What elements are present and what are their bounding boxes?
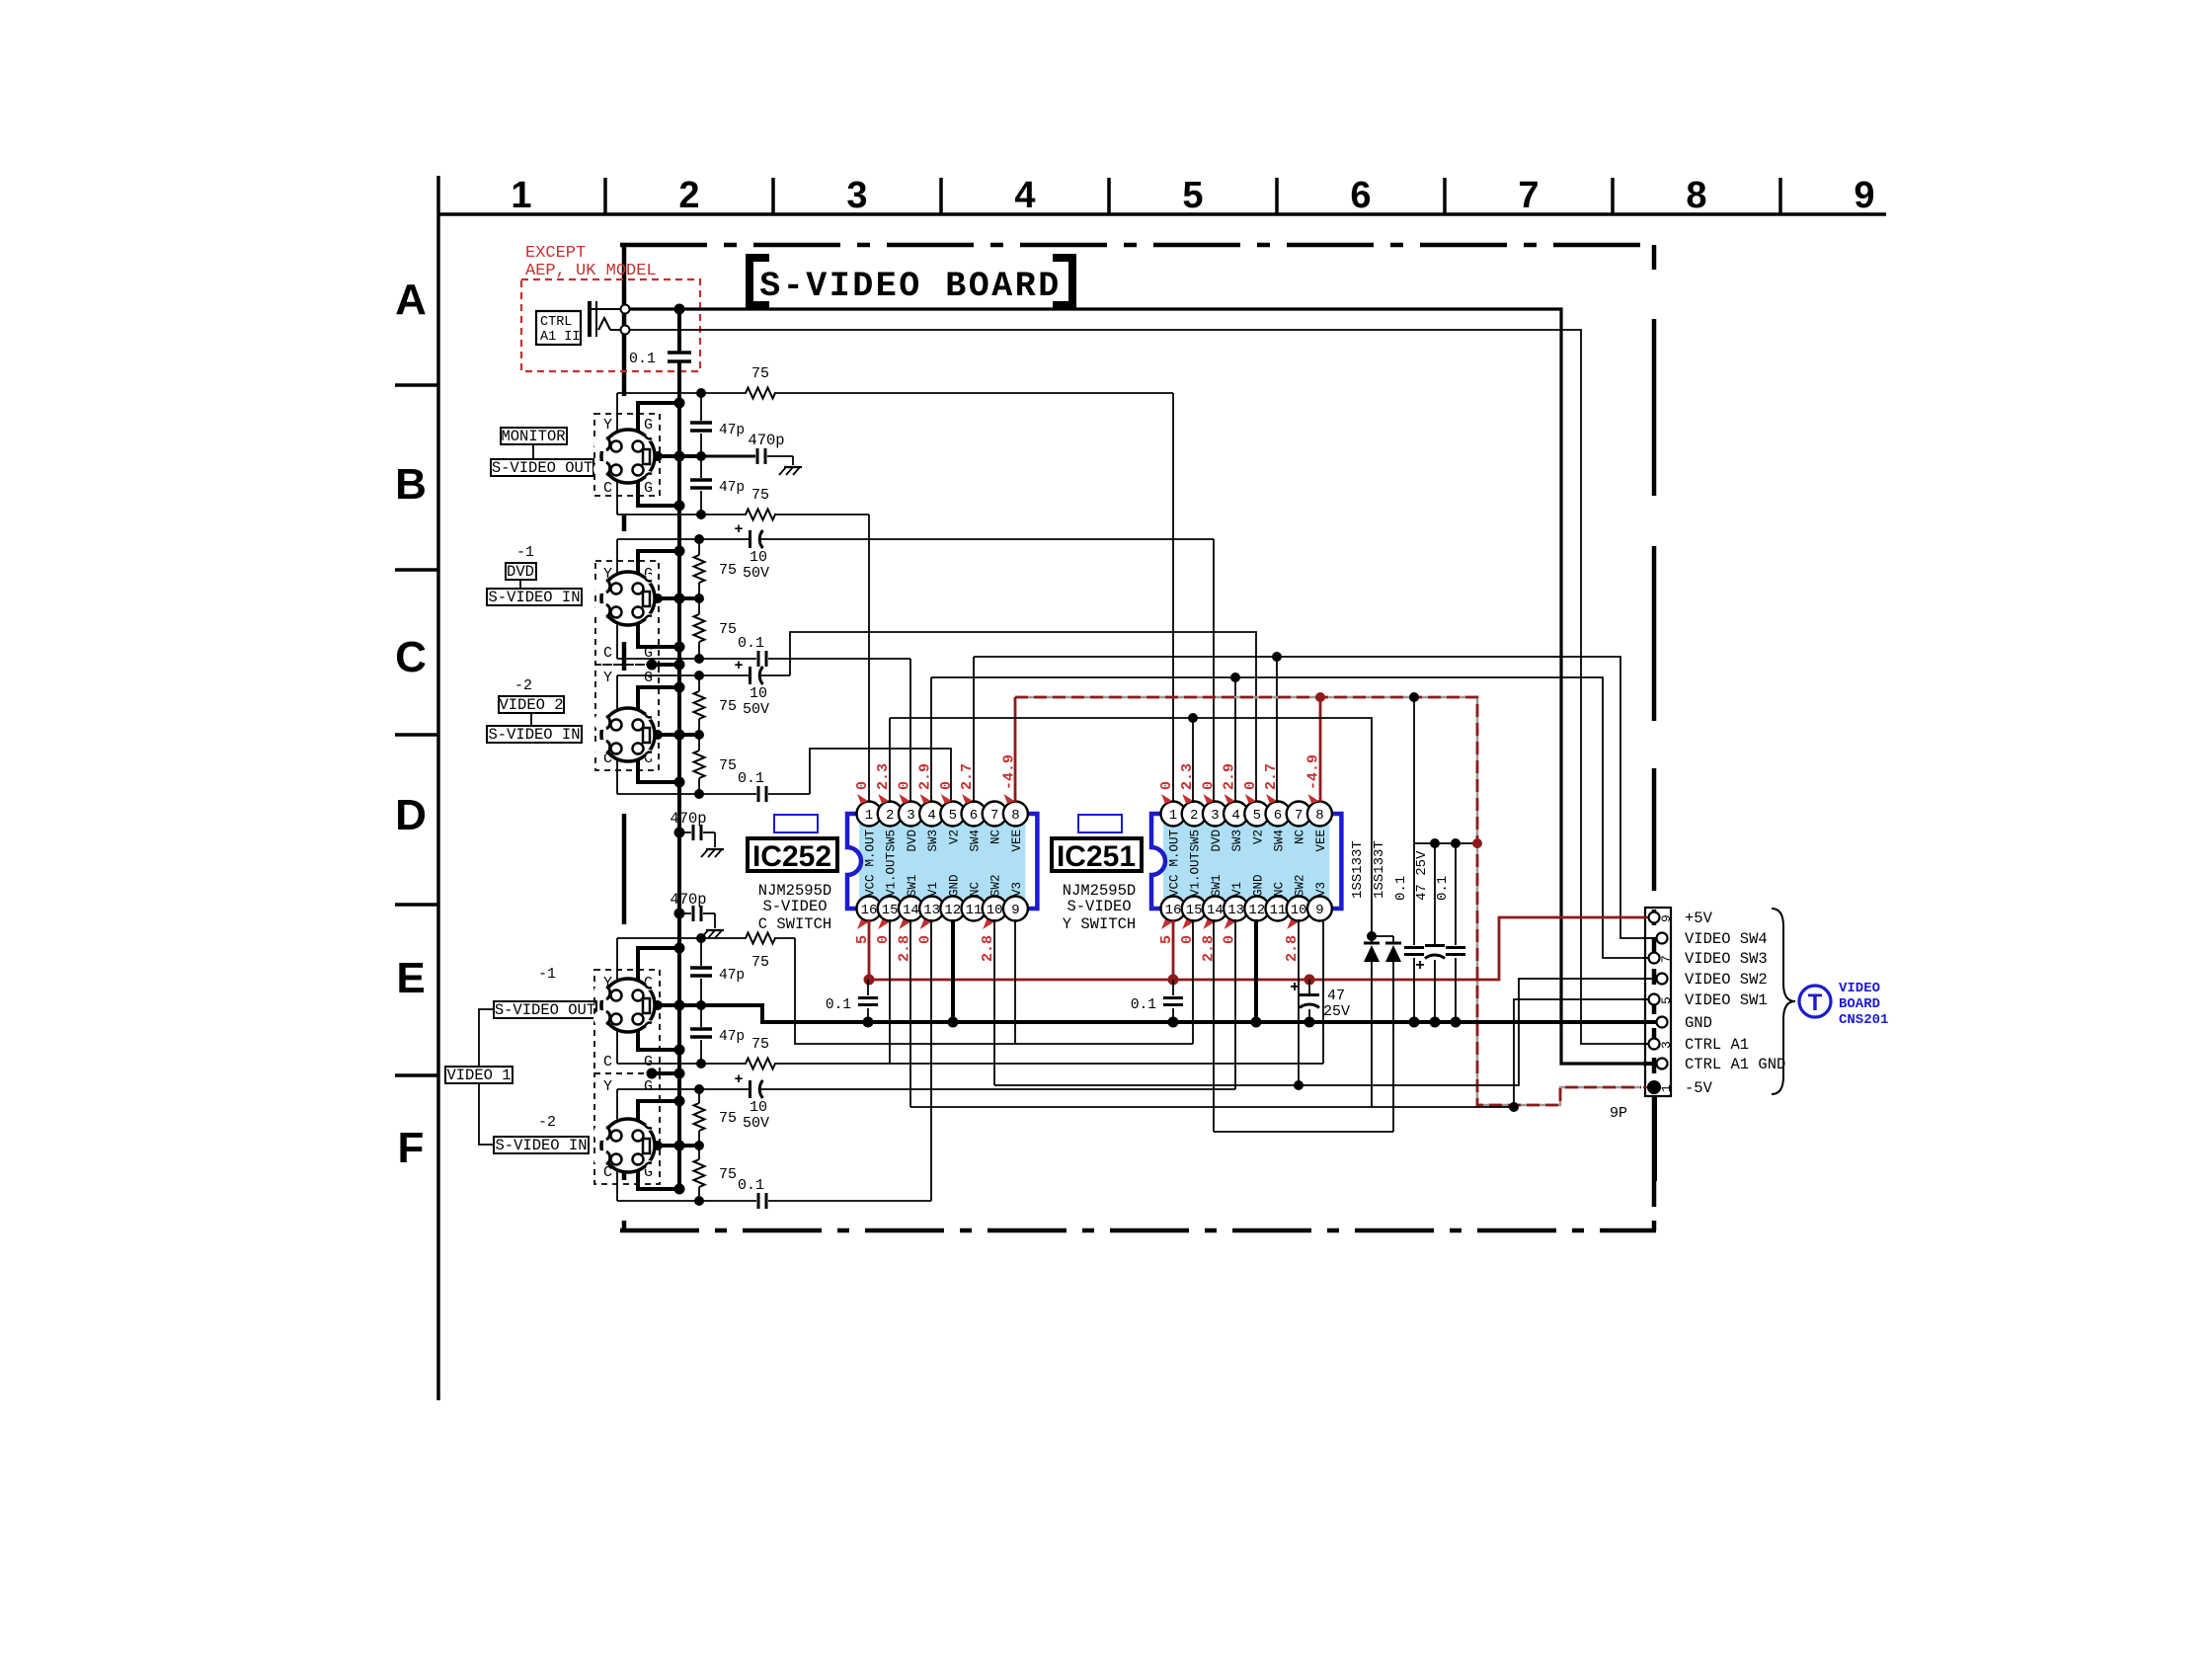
svg-text:0.1: 0.1 [738, 1177, 764, 1194]
svg-text:NC: NC [1294, 830, 1307, 844]
wire VIDEO 1 S-VIDEO IN Y input with series cap [617, 1088, 749, 1090]
wire MONITOR Y out (75 ohm) to IC251 pin1 [617, 392, 747, 394]
IC IC252 top pins 1-8 [857, 802, 882, 827]
svg-text:6: 6 [970, 808, 978, 824]
svg-text:47 25V: 47 25V [1414, 850, 1430, 901]
IC part small blue box IC251 [1078, 815, 1122, 832]
IC outline IC251 (blue DIP16) [1151, 814, 1165, 909]
svg-text:SW5: SW5 [1189, 830, 1203, 852]
svg-text:C SWITCH: C SWITCH [758, 915, 831, 933]
svg-text:16: 16 [861, 903, 878, 918]
svg-text:V2: V2 [947, 830, 961, 844]
svg-text:SW5: SW5 [885, 830, 899, 852]
wire shield/slot DVD to trunk [649, 596, 699, 600]
svg-text:V3: V3 [1010, 882, 1024, 897]
svg-text:C: C [603, 645, 612, 662]
svg-text:+: + [734, 658, 743, 674]
svg-text:5: 5 [949, 808, 957, 824]
svg-text:M.OUT: M.OUT [864, 830, 878, 867]
IC outline IC252 (blue DIP16) [847, 814, 861, 909]
capacitor 0.1 decoupling (IC252) [867, 980, 869, 995]
wire IC251 GND pin12 to rail (thick) [1254, 919, 1258, 1022]
svg-text:E: E [396, 954, 425, 1002]
svg-text:10: 10 [750, 685, 767, 702]
svg-text:7: 7 [1518, 175, 1539, 216]
pin +5V CNS201 [1649, 912, 1660, 923]
svg-text:SW4: SW4 [1273, 830, 1287, 852]
svg-text:T: T [1808, 990, 1823, 1016]
svg-text:0.1: 0.1 [826, 997, 851, 1013]
svg-text:2: 2 [886, 808, 894, 824]
svg-text:1SS133T: 1SS133T [1350, 840, 1366, 899]
svg-text:9: 9 [1659, 914, 1674, 922]
wire DVD C input with 0.1 cap [617, 658, 756, 660]
svg-text:IC252: IC252 [752, 840, 831, 873]
svg-text:75: 75 [751, 1036, 769, 1053]
svg-text:4: 4 [1231, 808, 1239, 824]
svg-text:13: 13 [1227, 903, 1244, 918]
pin VIDEO SW2 CNS201 [1657, 974, 1668, 985]
connector box S-VIDEO OUT row E (dashed) [594, 970, 660, 1073]
label MONITOR [501, 428, 567, 444]
connector box VIDEO 2 (dashed) [595, 665, 659, 770]
svg-text:-1: -1 [538, 966, 556, 983]
svg-text:7: 7 [990, 808, 998, 824]
resistor 75 termination lower VIDEO 2 [698, 735, 700, 751]
svg-text:47p: 47p [719, 423, 745, 438]
svg-text:75: 75 [751, 365, 769, 382]
svg-text:1: 1 [1659, 1084, 1674, 1092]
svg-text:CNS201: CNS201 [1839, 1012, 1888, 1028]
svg-text:5: 5 [1182, 175, 1203, 216]
svg-text:S-VIDEO IN: S-VIDEO IN [488, 589, 580, 606]
svg-text:7: 7 [1659, 955, 1674, 963]
wire main trunk bus x=688 [677, 309, 681, 353]
svg-text:75: 75 [751, 954, 769, 971]
wire MONITOR C out (75 ohm) to IC252 pin1 [617, 514, 747, 515]
junction bridge between DVD and VIDEO2 shields [652, 663, 679, 667]
wire DVD Y input with series cap [617, 538, 749, 540]
svg-text:V1: V1 [1230, 882, 1244, 897]
wire SW1 net IC251 to diode D2 [1214, 1131, 1393, 1133]
svg-text:VIDEO SW3: VIDEO SW3 [1685, 950, 1768, 968]
svg-text:S-VIDEO BOARD: S-VIDEO BOARD [759, 267, 1062, 306]
wire G top MONITOR [638, 403, 679, 446]
wire G bottom DVD [638, 612, 679, 647]
label S-VIDEO OUT (monitor) [491, 459, 593, 476]
svg-text:Y: Y [603, 670, 612, 686]
pin VIDEO SW4 CNS201 [1657, 933, 1668, 944]
svg-text:F: F [398, 1124, 425, 1172]
title S-VIDEO BOARD [750, 258, 769, 305]
wire Y/C pin column VIDEO 2 [616, 675, 618, 794]
capacitor 47uF 25V (on +5V rail) [1308, 980, 1310, 993]
junction bridge between E and F shields [652, 1071, 679, 1075]
svg-text:75: 75 [719, 757, 737, 774]
svg-text:16: 16 [1165, 903, 1182, 918]
svg-text:+: + [1415, 957, 1425, 975]
svg-text:+: + [734, 521, 743, 538]
capacitor 47p upper (monitor) [700, 393, 702, 421]
svg-text:470p: 470p [670, 810, 706, 828]
svg-text:Y: Y [603, 417, 612, 434]
wire G bottom VIDEO 1 S-VIDEO IN [638, 1159, 679, 1189]
svg-text:1: 1 [511, 175, 531, 216]
svg-text:VIDEO: VIDEO [1839, 981, 1880, 996]
svg-text:0: 0 [938, 781, 955, 790]
svg-text:G: G [644, 1054, 653, 1070]
svg-text:0: 0 [1242, 781, 1259, 790]
svg-text:VIDEO SW1: VIDEO SW1 [1685, 991, 1768, 1009]
wire G bottom VIDEO 2 [638, 749, 679, 782]
IC body fill IC251 [1163, 824, 1329, 899]
svg-text:MONITOR: MONITOR [501, 428, 565, 445]
svg-text:5: 5 [1253, 808, 1261, 824]
svg-text:G: G [644, 670, 653, 686]
wire IC252 pin9 V3 stub down [1014, 919, 1016, 1044]
capacitor 470p upper (trunk, row D) [674, 828, 685, 838]
svg-text:75: 75 [719, 1166, 737, 1183]
wire shield/slot VIDEO 2 to trunk [649, 733, 699, 737]
svg-text:0.1: 0.1 [629, 351, 656, 367]
svg-text:11: 11 [1270, 903, 1287, 918]
label S-VIDEO IN (VIDEO 2) [487, 726, 582, 743]
svg-text:75: 75 [719, 621, 737, 638]
svg-text:SW2: SW2 [989, 874, 1003, 897]
resistor 75 (monitor C) [746, 510, 775, 520]
brace for CNS201 [1772, 909, 1795, 1094]
resistor 75 (E out C) [746, 1059, 775, 1069]
wire G bottom MONITOR [638, 470, 679, 506]
resistor 75 termination upper VIDEO 1 S-VIDEO IN [698, 1089, 700, 1103]
pin VIDEO SW1 CNS201 [1649, 994, 1660, 1005]
wire below CNS201 pin1 [1653, 1096, 1657, 1181]
svg-text:NC: NC [969, 882, 983, 897]
svg-text:9P: 9P [1610, 1105, 1627, 1122]
pin VIDEO SW3 CNS201 [1649, 953, 1660, 964]
svg-text:S-VIDEO OUT: S-VIDEO OUT [492, 459, 592, 477]
svg-text:75: 75 [719, 1110, 737, 1127]
svg-text:SW3: SW3 [926, 830, 940, 852]
svg-text:25V: 25V [1323, 1003, 1350, 1020]
wire CTRL A1 net (jack ring to pin CTRL A1) [629, 330, 1647, 1044]
svg-text:8: 8 [1686, 175, 1706, 216]
wire E out C (75 ohm) from IC252 pin15 [617, 1063, 747, 1065]
svg-text:9: 9 [1854, 175, 1874, 216]
IC IC252 bottom pins 16-9 [857, 897, 882, 921]
chassis ground (470p upper) [706, 848, 724, 850]
svg-text:SW4: SW4 [969, 830, 983, 852]
svg-text:A: A [395, 276, 427, 324]
svg-text:6: 6 [1274, 808, 1282, 824]
pin -5V CNS201 [1647, 1080, 1661, 1094]
svg-text:V1.OUT: V1.OUT [885, 851, 899, 897]
wire VIDEO 2 C input with 0.1 cap (jog to IC252 pin5) [617, 793, 756, 795]
connector VIDEO 1 S-VIDEO IN (mini-DIN 4 S-video) [593, 1119, 655, 1172]
svg-text:50V: 50V [743, 701, 769, 718]
wire +5V rail (maroon) [869, 917, 1651, 980]
wire Y/C pin column DVD [616, 539, 618, 659]
capacitor 10uF 50V (series, VIDEO 2 Y) [749, 667, 751, 684]
capacitor 47p upper (row E) [700, 938, 702, 966]
capacitor 470p to chassis (monitor) [703, 455, 755, 458]
svg-text:EXCEPT: EXCEPT [525, 244, 586, 263]
wire VEE filter feed from -5V line [1413, 697, 1415, 843]
pin CTRL A1 CNS201 [1649, 1039, 1660, 1050]
capacitor 0.1 (series, VIDEO 2 C) [757, 786, 760, 802]
svg-text:C: C [603, 1054, 612, 1070]
svg-text:47p: 47p [719, 968, 745, 984]
svg-text:AEP, UK MODEL: AEP, UK MODEL [525, 262, 657, 280]
svg-text:V1.OUT: V1.OUT [1189, 851, 1203, 897]
svg-text:CTRL A1 GND: CTRL A1 GND [1685, 1056, 1785, 1073]
wire VIDEO 2 Y input with series cap (jog to IC251 pin5) [617, 674, 749, 676]
svg-text:S-VIDEO: S-VIDEO [1066, 898, 1131, 915]
svg-text:-2: -2 [514, 677, 532, 694]
svg-text:3: 3 [1659, 1041, 1674, 1049]
svg-text:DVD: DVD [906, 830, 919, 852]
pin stubs CNS201 [1643, 916, 1654, 918]
svg-text:4: 4 [927, 808, 935, 824]
wire VIDEO 1 S-VIDEO IN C input with 0.1 cap [617, 1200, 756, 1202]
svg-text:2: 2 [1190, 808, 1198, 824]
capacitor 470p lower (trunk, row D) [674, 909, 685, 919]
svg-text:0.1: 0.1 [1435, 876, 1451, 901]
wire G top VIDEO 1 S-VIDEO IN [638, 1101, 679, 1136]
pin CTRL A1 GND CNS201 [1657, 1059, 1668, 1069]
svg-text:SW3: SW3 [1230, 830, 1244, 852]
svg-text:Y SWITCH: Y SWITCH [1063, 915, 1136, 933]
wire shield/slot VIDEO 1 S-VIDEO IN to trunk [649, 1144, 699, 1148]
resistor 75 (monitor Y) [746, 388, 775, 399]
S-VIDEO BOARD outline (dash-dot boundary) [620, 243, 1656, 248]
capacitor 47p lower (monitor) [700, 456, 702, 478]
svg-text:VIDEO 2: VIDEO 2 [499, 696, 563, 714]
IC reference label IC251 [1052, 838, 1142, 871]
board edge dash through CNS201 [1652, 910, 1657, 1094]
chassis ground (470p monitor) [784, 466, 802, 468]
svg-text:3: 3 [1211, 808, 1219, 824]
resistor 75 termination upper VIDEO 2 [698, 675, 700, 691]
svg-text:6: 6 [1350, 175, 1371, 216]
connector VIDEO 2 S-VIDEO IN (mini-DIN 4 S-video) [593, 708, 655, 761]
svg-text:G: G [644, 480, 653, 497]
svg-text:7: 7 [1295, 808, 1303, 824]
svg-text:470p: 470p [670, 891, 706, 909]
label bracket VIDEO 1 [479, 1009, 494, 1067]
label VIDEO 1 [445, 1067, 513, 1083]
svg-text:8: 8 [1315, 808, 1323, 824]
label S-VIDEO IN (DVD) [487, 589, 582, 605]
svg-text:IC251: IC251 [1057, 840, 1136, 873]
capacitor 10uF 50V (series, VIDEO 1 S-VIDEO IN Y) [749, 1080, 751, 1098]
svg-text:NC: NC [989, 830, 1003, 844]
wire Y/C pin column row E [616, 938, 618, 1064]
resistor 75 termination lower DVD [698, 598, 700, 614]
wire IC252 GND pin12 to rail (thick) [951, 919, 955, 1022]
svg-text:5: 5 [1659, 996, 1674, 1004]
wire VIDEO SW4 net (CNS pin - IC pin6 both) [974, 657, 1651, 938]
svg-text:V1: V1 [926, 882, 940, 897]
svg-text:BOARD: BOARD [1839, 996, 1880, 1012]
svg-text:8: 8 [1011, 808, 1019, 824]
svg-text:VIDEO SW4: VIDEO SW4 [1685, 930, 1768, 948]
svg-text:75: 75 [719, 562, 737, 579]
connector DVD S-VIDEO IN (mini-DIN 4 S-video) [593, 572, 655, 625]
wire VIDEO SW1 net [910, 1106, 1372, 1108]
svg-text:0: 0 [1200, 781, 1217, 790]
svg-text:11: 11 [966, 903, 983, 918]
svg-text:12: 12 [944, 903, 961, 918]
wire VEE filter rail [1414, 842, 1477, 844]
wire G bottom row E [638, 1017, 679, 1050]
svg-text:1: 1 [1169, 808, 1177, 824]
svg-text:VIDEO 1: VIDEO 1 [446, 1067, 511, 1084]
connector CNS201 body (9P) [1645, 908, 1671, 1096]
svg-text:47p: 47p [719, 1029, 745, 1045]
resistor 75 termination upper DVD [698, 539, 700, 555]
svg-text:S-VIDEO IN: S-VIDEO IN [488, 726, 580, 744]
svg-text:0: 0 [896, 781, 912, 790]
svg-text:1: 1 [865, 808, 873, 824]
svg-text:2: 2 [678, 175, 699, 216]
svg-text:14: 14 [1207, 903, 1224, 918]
svg-text:SW1: SW1 [906, 874, 919, 897]
IC reference label IC252 [748, 838, 837, 871]
svg-text:50V: 50V [743, 565, 769, 582]
capacitor 0.1 (series, DVD C) [757, 651, 760, 667]
svg-text:3: 3 [907, 808, 914, 824]
svg-text:DVD: DVD [1210, 830, 1224, 852]
svg-text:4: 4 [1014, 175, 1035, 216]
svg-text:CTRL: CTRL [540, 315, 572, 330]
svg-text:A1 II: A1 II [540, 330, 581, 345]
svg-text:9: 9 [1315, 903, 1323, 918]
svg-text:VEE: VEE [1314, 830, 1328, 852]
svg-text:+: + [734, 1071, 743, 1088]
junction dots on GND rail [863, 1017, 874, 1028]
svg-text:10: 10 [750, 549, 767, 566]
connector box DVD (dashed) [595, 561, 659, 665]
svg-text:-5V: -5V [1685, 1079, 1713, 1097]
svg-text:V2: V2 [1251, 830, 1265, 844]
wire E out Y (75 ohm) from IC251 pin15 [617, 937, 747, 939]
svg-text:10: 10 [987, 903, 1003, 918]
svg-text:470p: 470p [748, 432, 784, 449]
capacitor 0.1 (VEE filter right) [1455, 843, 1457, 945]
svg-text:S-VIDEO IN: S-VIDEO IN [495, 1137, 587, 1154]
capacitor 47uF 25V (VEE filter) [1434, 843, 1436, 945]
svg-text:S-VIDEO: S-VIDEO [762, 898, 827, 915]
svg-text:NC: NC [1273, 882, 1287, 897]
svg-text:V3: V3 [1314, 882, 1328, 897]
svg-text:3: 3 [846, 175, 867, 216]
svg-text:SW1: SW1 [1210, 874, 1224, 897]
svg-text:15: 15 [1186, 903, 1203, 918]
IC body fill IC252 [859, 824, 1025, 899]
svg-text:M.OUT: M.OUT [1168, 830, 1182, 867]
svg-text:DVD: DVD [507, 563, 534, 581]
svg-text:0: 0 [854, 781, 871, 790]
svg-text:47p: 47p [719, 480, 745, 496]
jack CTRL A1 II box [536, 311, 581, 345]
svg-text:D: D [395, 791, 427, 839]
wire Y/C pin column VIDEO 1 S-VIDEO IN [616, 1089, 618, 1201]
svg-text:GND: GND [947, 874, 961, 897]
connector box MONITOR (dashed) [594, 414, 660, 496]
svg-text:0.1: 0.1 [738, 770, 764, 787]
svg-text:75: 75 [751, 487, 769, 504]
wire Y/C pin column MONITOR [616, 393, 618, 515]
svg-text:47: 47 [1327, 988, 1345, 1004]
svg-text:G: G [644, 417, 653, 434]
label VIDEO 2 [499, 696, 564, 713]
svg-text:1SS133T: 1SS133T [1372, 840, 1387, 899]
wire CTRL A1 GND net (jack tip to pin CTRL A1 GND) [629, 309, 1647, 1064]
svg-text:9: 9 [1011, 903, 1019, 918]
capacitor 47p lower (row E) [700, 1005, 702, 1027]
IC IC251 top pins 1-8 [1161, 802, 1186, 827]
IC IC251 bottom pins 16-9 [1161, 897, 1186, 921]
svg-text:13: 13 [923, 903, 940, 918]
svg-text:CTRL A1: CTRL A1 [1685, 1036, 1749, 1054]
svg-text:GND: GND [1685, 1014, 1712, 1032]
wire VIDEO SW2 net [994, 979, 1651, 1085]
label S-VIDEO OUT (row E) [494, 1001, 596, 1018]
svg-text:14: 14 [903, 903, 919, 918]
svg-text:VCC: VCC [1168, 874, 1182, 897]
diode D1 1SS133T [1371, 936, 1373, 943]
wire G top DVD [638, 551, 679, 589]
capacitor 0.1 on trunk near jack [668, 351, 691, 355]
svg-text:10: 10 [1291, 903, 1307, 918]
IC part small blue box IC252 [774, 815, 818, 832]
capacitor 0.1 (series, VIDEO 1 S-VIDEO IN C) [757, 1193, 760, 1209]
wire GND rail (thick) [649, 1005, 1647, 1022]
svg-text:VCC: VCC [864, 874, 878, 897]
svg-text:GND: GND [1251, 874, 1265, 897]
svg-text:B: B [395, 460, 427, 509]
svg-text:0: 0 [1158, 781, 1175, 790]
svg-text:SW2: SW2 [1294, 874, 1307, 897]
diode D2 1SS133T [1372, 935, 1393, 937]
wire SW5/CTRL clamp net to diodes [890, 718, 1372, 936]
svg-text:VIDEO SW2: VIDEO SW2 [1685, 971, 1768, 989]
svg-text:10: 10 [750, 1099, 767, 1116]
capacitor 0.1 (VEE filter left) [1413, 843, 1415, 945]
svg-text:0.1: 0.1 [738, 635, 764, 652]
svg-text:15: 15 [882, 903, 899, 918]
wire shield/slot MONITOR to trunk [649, 454, 703, 458]
svg-text:-2: -2 [538, 1114, 556, 1131]
connector S-VIDEO OUT -1 (VIDEO 1) (mini-DIN 4 S-video) [593, 979, 655, 1032]
wire VEE -5V net (maroon dashed) [1015, 697, 1641, 1105]
svg-text:C: C [395, 633, 427, 681]
connector box S-VIDEO IN row F (dashed) [594, 1073, 660, 1184]
capacitor 0.1 decoupling (IC251) [1172, 980, 1174, 995]
label S-VIDEO IN (row F) [494, 1137, 589, 1153]
svg-text:12: 12 [1248, 903, 1265, 918]
svg-text:0.1: 0.1 [1393, 876, 1409, 901]
chassis ground (470p lower) [706, 929, 724, 931]
svg-text:0.1: 0.1 [1131, 997, 1156, 1013]
wire VIDEO SW3 net (CNS pin - IC pin4 both) [931, 677, 1651, 958]
resistor 75 termination lower VIDEO 1 S-VIDEO IN [698, 1146, 700, 1159]
svg-text:VEE: VEE [1010, 830, 1024, 852]
node T VIDEO BOARD CNS201 [1799, 986, 1831, 1017]
svg-text:50V: 50V [743, 1115, 769, 1132]
connector MONITOR S-VIDEO OUT (mini-DIN 4 S-video) [593, 430, 655, 483]
